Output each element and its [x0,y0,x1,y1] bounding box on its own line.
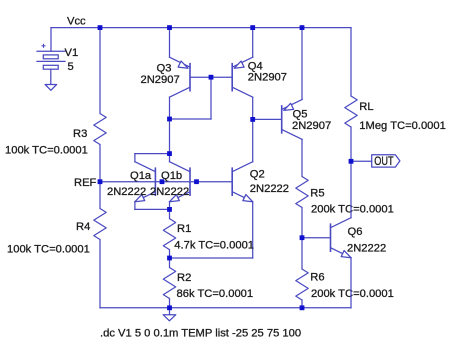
wire V1 to ground [50,69,52,84]
wire Q3 emitter lead [169,28,171,58]
junction Q1b base [194,179,199,184]
resistor R3 [94,114,106,145]
svg-text:R4: R4 [76,221,90,233]
wire REF to R4 [99,182,101,209]
wire Q2 collector lead [252,119,254,161]
svg-text:REF: REF [74,177,97,189]
wire V1 to Vcc rail [50,28,52,52]
transistor Q2 [231,168,233,195]
wire Q4 emitter lead [252,28,254,58]
junction node REF [98,179,103,184]
junction R6-ground rail [300,305,305,310]
svg-text:2N2222: 2N2222 [107,186,146,198]
ground below V1 [45,85,57,91]
wire Q5 collector to R5 [301,139,303,176]
wire Vcc rail [51,27,351,29]
svg-text:.dc V1 5 0 0.1m TEMP list -25: .dc V1 5 0 0.1m TEMP list -25 25 75 100 [100,328,301,340]
svg-text:V1: V1 [65,47,79,59]
svg-text:2N2222: 2N2222 [250,183,289,195]
junction Vcc-Q4e [250,25,255,30]
wire R6 to ground rail [301,300,303,308]
junction Q3 collector tie [167,117,172,122]
transistor Q1a [154,168,156,195]
svg-text:2N2222: 2N2222 [347,243,386,255]
resistor R1 [163,219,175,250]
wire R1 to R2 [169,250,171,268]
wire Q6 emitter to ground rail [350,258,352,308]
wire R2 to ground rail [169,299,171,308]
junction Vcc-R3 [98,25,103,30]
resistor R5 [296,177,308,208]
transistor Q6 [330,224,332,251]
wire Vcc rail to R3 [99,28,101,114]
junction Q1 collectors [167,151,172,156]
wire R5 to Q6 base node [301,208,303,238]
wire Q4 collector lead [252,97,254,119]
wire node to R1 [169,209,171,218]
svg-text:2N2222: 2N2222 [150,186,189,198]
transistor Q5 [281,106,283,133]
junction Q1 emitters-R1 [167,207,172,212]
svg-text:RL: RL [359,101,373,113]
wire Q2 emitter to R1-R2 node [170,257,253,259]
resistor R4 [94,209,106,240]
svg-text:Q5: Q5 [293,109,308,121]
wire R3 to REF node [99,145,101,182]
junction Q1a base [160,179,165,184]
transistor Q3 [189,64,191,91]
svg-text:Q3: Q3 [157,63,172,75]
wire base tie horizontal [170,118,212,120]
wire ground rail [100,307,351,309]
junction R5-R6-Q6b [300,235,305,240]
svg-text:100k TC=0.0001: 100k TC=0.0001 [5,145,88,157]
svg-text:200k TC=0.0001: 200k TC=0.0001 [311,203,394,215]
svg-text:1Meg TC=0.0001: 1Meg TC=0.0001 [359,120,446,132]
wire base tie vertical [210,77,212,119]
wire Vcc rail to RL [350,28,352,96]
resistor R2 [163,268,175,299]
wire Q3 collector down to Q1 collectors [169,97,171,162]
svg-text:Q2: Q2 [250,169,265,181]
svg-text:4.7k TC=0.0001: 4.7k TC=0.0001 [174,239,254,251]
svg-text:Q1a: Q1a [130,170,152,182]
wire Q3-Q4 base [190,76,232,78]
wire Q1a collector to node [135,153,170,155]
wire Q1a emitter to node [135,208,170,210]
svg-text:R3: R3 [73,128,87,140]
wire Q4 collector to Q5 base [253,118,282,120]
transistor Q1b [189,168,191,195]
wire OUT node to Q6 collector [350,161,352,217]
transistor Q4 [231,64,233,91]
wire OUT node to flag [351,160,372,162]
svg-text:R2: R2 [177,272,191,284]
svg-text:Q6: Q6 [348,226,363,238]
wire Q1a emitter lead [134,202,136,210]
voltage source V1 [37,50,65,52]
ground below R2 [163,315,176,321]
junction Q2c-Q4c-Q5b [250,117,255,122]
junction Vcc-Q3e [167,25,172,30]
svg-text:R1: R1 [177,223,191,235]
resistor R6 [296,269,308,300]
svg-text:Vcc: Vcc [67,15,86,27]
wire Q5 emitter lead [301,28,303,100]
wire node to R6 [301,238,303,269]
svg-text:86k TC=0.0001: 86k TC=0.0001 [177,288,254,300]
wire Q1b emitter lead [169,202,171,210]
wire stub to ground symbol [169,308,171,315]
net flag OUT [372,155,400,167]
wire R4 to ground rail [99,240,101,308]
svg-text:R5: R5 [310,187,324,199]
wire Q6 base wire [302,237,331,239]
svg-text:2N2907: 2N2907 [248,72,287,84]
junction RL-OUT-Q6c [349,159,354,164]
resistor RL [345,96,357,127]
svg-text:5: 5 [68,61,74,73]
junction Q3-Q4 base tie [209,75,214,80]
wire Q1a collector lead [134,154,136,162]
svg-text:R6: R6 [310,272,324,284]
svg-text:2N2907: 2N2907 [292,120,331,132]
junction Vcc-Q5e [300,25,305,30]
svg-text:2N2907: 2N2907 [141,74,180,86]
svg-text:OUT: OUT [374,154,394,168]
svg-text:100k TC=0.0001: 100k TC=0.0001 [7,244,90,256]
svg-text:200k TC=0.0001: 200k TC=0.0001 [311,288,394,300]
wire Q2 emitter lead [252,202,254,258]
junction R2-ground rail [167,305,172,310]
wire REF to Q2 base [100,181,232,183]
junction R1-R2-Q2e [167,256,172,261]
wire RL to OUT node [350,127,352,161]
